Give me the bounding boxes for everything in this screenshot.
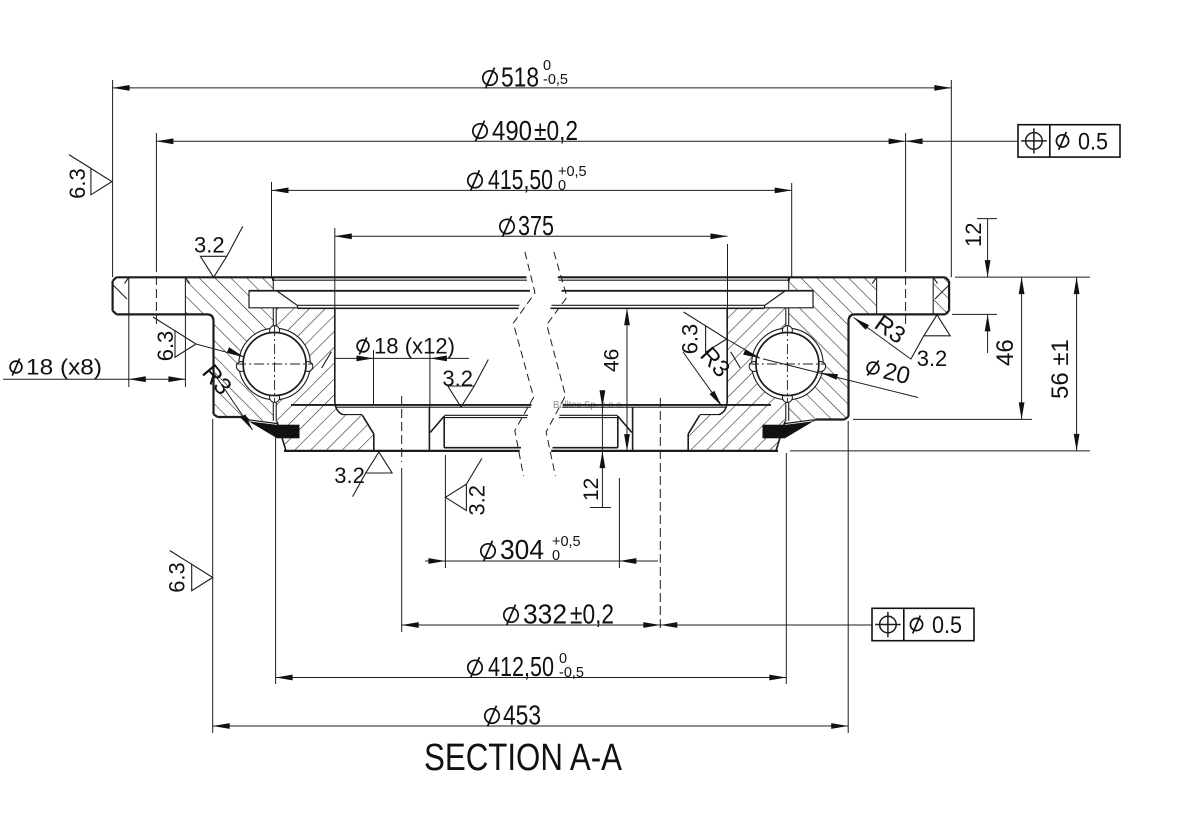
svg-text:18 (x12): 18 (x12): [374, 334, 455, 359]
svg-text:6.3: 6.3: [65, 168, 90, 199]
svg-text:18 (x8): 18 (x8): [26, 355, 102, 380]
svg-text:±0,2: ±0,2: [570, 599, 614, 630]
svg-text:-0,5: -0,5: [543, 72, 568, 88]
svg-text:±0,2: ±0,2: [534, 115, 578, 146]
svg-text:375: 375: [518, 210, 554, 241]
svg-text:12: 12: [580, 478, 603, 501]
svg-text:SECTION A-A: SECTION A-A: [424, 737, 623, 779]
svg-text:46: 46: [992, 339, 1019, 366]
svg-text:6.3: 6.3: [165, 562, 190, 593]
svg-text:3.2: 3.2: [334, 463, 365, 488]
svg-text:0.5: 0.5: [932, 612, 962, 639]
svg-text:490: 490: [492, 115, 532, 146]
svg-text:518: 518: [501, 62, 539, 93]
svg-text:3.2: 3.2: [464, 485, 489, 516]
svg-text:6.3: 6.3: [678, 324, 703, 355]
svg-text:0: 0: [558, 178, 566, 194]
svg-text:304: 304: [500, 534, 544, 565]
svg-text:332: 332: [523, 599, 567, 630]
svg-text:0: 0: [552, 548, 560, 564]
svg-text:46: 46: [601, 349, 624, 372]
svg-text:12: 12: [961, 223, 986, 247]
svg-text:56 ±1: 56 ±1: [1047, 339, 1074, 399]
svg-text:6.3: 6.3: [153, 331, 178, 362]
svg-text:-0,5: -0,5: [559, 665, 584, 681]
svg-text:412,50: 412,50: [488, 651, 554, 682]
svg-text:415,50: 415,50: [488, 164, 553, 195]
svg-text:3.2: 3.2: [442, 366, 473, 391]
svg-text:453: 453: [503, 700, 541, 731]
svg-text:3.2: 3.2: [917, 346, 948, 371]
svg-text:0.5: 0.5: [1078, 128, 1108, 155]
svg-text:3.2: 3.2: [194, 232, 225, 257]
